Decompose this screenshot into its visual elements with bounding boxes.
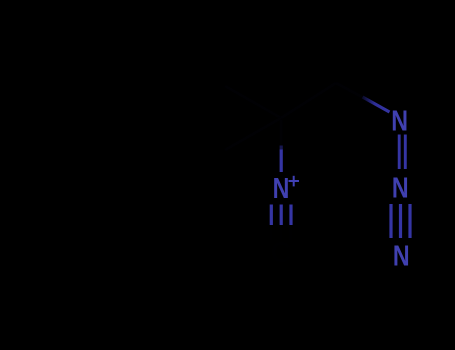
node C2 (central carbon, black on black) <box>281 118 282 119</box>
wire CH2-N1 blue half (C-N single bond to azide) <box>363 97 390 112</box>
wire C2-CH3 lower methyl (invisible black bond) <box>225 118 281 150</box>
double bond N1=N2 <box>398 135 401 170</box>
wire C2-CH3 upper methyl (invisible black bond) <box>225 86 281 118</box>
wire CH2-N1 black half (invisible) <box>336 83 362 97</box>
wire C2-N+ blue half (vertical bond down to isocyanide N) <box>280 146 283 151</box>
triple bond N+#C black half (invisible) <box>271 225 291 240</box>
triple bond N2#N3 <box>389 204 392 238</box>
wire C2-CH2 (invisible black bond) <box>281 83 336 118</box>
atom N+ (isocyanide nitrogen) <box>273 171 290 204</box>
svg-text:N: N <box>393 239 410 272</box>
atom N1 (azide nitrogen) <box>391 104 408 137</box>
svg-text:N: N <box>391 104 408 137</box>
svg-text:N: N <box>392 171 409 204</box>
svg-text:N: N <box>273 171 290 204</box>
atom N3 (terminal azide nitrogen) <box>393 239 410 272</box>
triple bond N+#C (blue half) <box>270 205 273 226</box>
wire C2-N+ black half (invisible) <box>280 120 283 146</box>
svg-text:C: C <box>271 237 292 269</box>
charge + on isocyanide N <box>289 176 300 187</box>
atom N2 (azide nitrogen) <box>392 171 409 204</box>
